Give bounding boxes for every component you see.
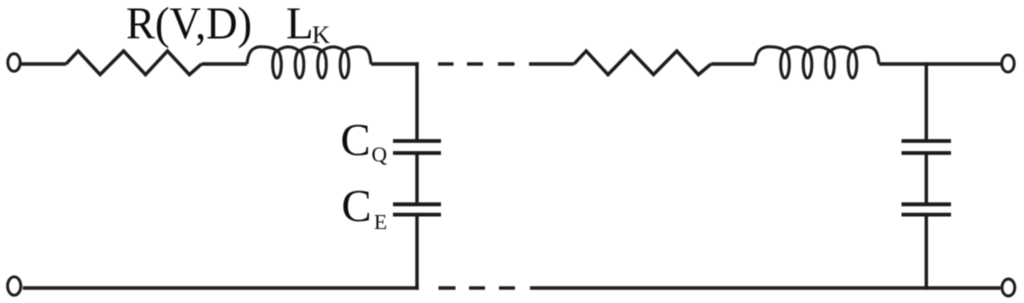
- wire node B vertical upper: [925, 62, 928, 141]
- dashed wire bottom (3 dashes): [439, 286, 456, 289]
- inductor L2 loop 2: [803, 51, 812, 78]
- inductor L2 loop 1: [781, 51, 790, 78]
- svg-text:Q: Q: [372, 143, 388, 167]
- inductor L1 loop 2: [295, 51, 304, 78]
- svg-text:K: K: [312, 22, 330, 49]
- capacitor C4 top plate: [902, 202, 952, 206]
- wire bottom rail left: [23, 286, 419, 289]
- inductor L1 LK humps: [247, 47, 371, 64]
- capacitor C3 bottom plate: [902, 151, 952, 155]
- svg-text:R(V,D): R(V,D): [126, 0, 252, 49]
- capacitor C4 bottom plate: [902, 213, 952, 217]
- terminal circle top-left: [8, 54, 20, 72]
- wire top-left lead: [22, 62, 67, 65]
- wire R2 to L2: [711, 62, 755, 65]
- resistor R2: [574, 51, 711, 75]
- wire CE to bottom rail: [415, 215, 418, 290]
- inductor L1 loop 4: [340, 51, 349, 78]
- capacitor C3 top plate: [902, 139, 952, 143]
- wire between C3 and C4: [925, 153, 928, 204]
- capacitor CE bottom plate: [393, 213, 441, 217]
- terminal circle bottom-left: [8, 277, 21, 295]
- wire top middle-right: [529, 62, 574, 65]
- capacitor CQ top plate: [393, 139, 441, 143]
- inductor L2 loop 4: [848, 51, 857, 78]
- wire C4 to bottom rail: [925, 215, 928, 290]
- capacitor CQ bottom plate: [393, 151, 441, 155]
- wire bottom rail right: [530, 286, 1001, 289]
- svg-text:C: C: [342, 181, 372, 231]
- dashed wire top (3 dashes): [438, 62, 454, 65]
- inductor L2 loop 3: [826, 51, 835, 78]
- capacitor CE top plate: [393, 202, 441, 206]
- wire L2 to terminal top-right through node B: [879, 62, 1002, 65]
- inductor L1 loop 3: [318, 51, 327, 78]
- svg-text:L: L: [286, 0, 314, 49]
- wire L1 to node A: [371, 62, 419, 65]
- terminal circle top-right: [1002, 55, 1014, 72]
- svg-text:C: C: [341, 115, 371, 165]
- wire between CQ and CE: [415, 153, 418, 204]
- terminal circle bottom-right: [1002, 279, 1015, 296]
- resistor R1 R(V,D): [66, 51, 202, 75]
- wire R1 to L1: [202, 62, 248, 65]
- wire node A vertical upper: [415, 62, 418, 141]
- svg-text:E: E: [374, 210, 387, 234]
- inductor L2 humps: [755, 47, 879, 64]
- inductor L1 loop 1: [273, 51, 282, 78]
